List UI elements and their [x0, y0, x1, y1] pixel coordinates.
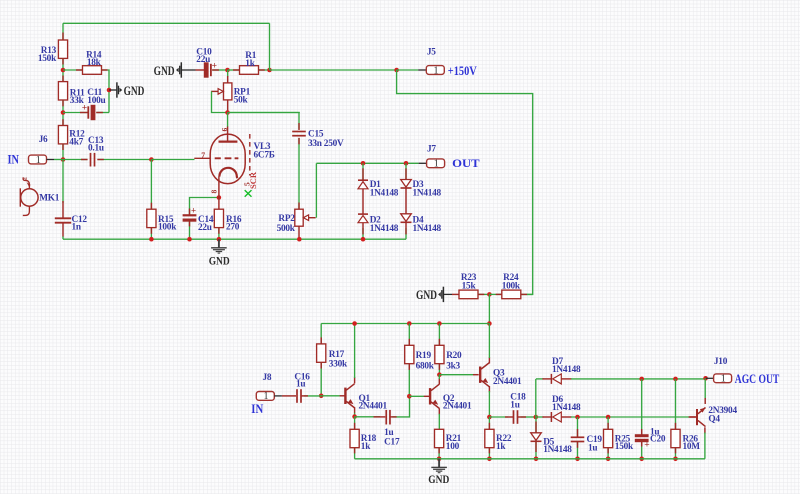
wire node IN to C13: [63, 159, 87, 161]
junction D3 top: [404, 161, 409, 166]
potentiometer RP1: [224, 83, 232, 100]
wire J5 pin: [397, 69, 419, 71]
resistor R23: [459, 290, 478, 299]
junction D1 top: [361, 161, 366, 166]
node cathode dot: [217, 195, 222, 200]
wire C15 to RP2: [298, 138, 300, 209]
resistor R17: [317, 344, 326, 362]
connector J6: [29, 155, 47, 164]
svg-text:1n: 1n: [72, 223, 82, 233]
potentiometer RP2: [295, 209, 303, 226]
node IN dot: [61, 157, 66, 162]
wire to GND flag: [109, 89, 116, 91]
capacitor C12: [55, 217, 71, 219]
node F dot: [487, 292, 492, 297]
resistor R1: [240, 66, 259, 75]
svg-text:1: 1: [721, 374, 726, 385]
capacitor C17: [385, 410, 387, 425]
capacitor C11 leads: [63, 112, 88, 114]
wire GND flag to C10: [181, 69, 195, 71]
svg-text:MK1: MK1: [39, 193, 60, 203]
svg-text:33n 250V: 33n 250V: [308, 139, 344, 149]
wire Q2 collector: [438, 378, 440, 384]
wire R20 to Q3 base node: [438, 364, 440, 375]
svg-text:50k: 50k: [234, 95, 249, 105]
diode D3: [401, 180, 412, 188]
svg-text:7: 7: [201, 150, 205, 159]
svg-text:4k7: 4k7: [69, 138, 83, 148]
svg-text:2N4401: 2N4401: [493, 377, 522, 387]
resistor R11: [58, 82, 67, 100]
wire grid node to tube pin 7: [151, 159, 194, 161]
wire R16 to rail: [218, 228, 220, 240]
svg-text:100: 100: [446, 442, 460, 452]
wire R22 to rail: [488, 448, 490, 459]
svg-text:1k: 1k: [361, 442, 371, 452]
tube VL3 dashed side line: [249, 134, 251, 176]
svg-text:1N4148: 1N4148: [552, 365, 581, 375]
no-connect X: [245, 190, 252, 197]
svg-text:J5: J5: [427, 47, 436, 57]
svg-text:J8: J8: [263, 373, 272, 383]
svg-text:+: +: [644, 440, 649, 450]
node D dot: [267, 68, 272, 73]
svg-text:18k: 18k: [87, 58, 102, 68]
capacitor C18: [513, 410, 515, 424]
wire C20 vertical: [641, 379, 643, 436]
node Q1 base dot: [319, 394, 324, 399]
node G dot: [534, 415, 539, 420]
svg-text:1: 1: [434, 159, 439, 170]
svg-text:1: 1: [36, 155, 41, 166]
wire R22 top: [488, 417, 490, 429]
wire R13 to R11 node: [62, 58, 64, 81]
svg-text:1u: 1u: [588, 443, 597, 453]
junction D5 rail: [534, 457, 539, 462]
svg-text:1N4148: 1N4148: [543, 445, 572, 455]
svg-text:1: 1: [434, 65, 439, 76]
node J10 dot: [703, 376, 708, 381]
wire C17 to Q2 base node: [392, 396, 409, 417]
wire C18 to node G: [521, 416, 536, 418]
junction D2 rail: [361, 237, 366, 242]
wire node F to R24: [489, 293, 502, 295]
capacitor C14: [183, 214, 197, 216]
svg-text:150k: 150k: [38, 54, 57, 64]
wire node C to RP1: [227, 70, 229, 77]
resistor R24: [502, 290, 521, 299]
svg-text:R20: R20: [446, 351, 462, 361]
wire C14 to rail: [189, 220, 191, 239]
svg-text:8: 8: [210, 190, 219, 194]
svg-text:10M: 10M: [683, 442, 701, 452]
svg-text:GND: GND: [209, 253, 230, 267]
wire +150V feed down: [397, 70, 533, 294]
wire Q4 collector to rail: [704, 427, 706, 433]
svg-text:1N4148: 1N4148: [413, 189, 442, 199]
wire OUT row: [316, 162, 418, 164]
wire D5 to rail: [535, 442, 537, 459]
junction C14 rail: [187, 237, 192, 242]
wire RP1 bottom to node E: [227, 100, 229, 113]
wire R15 to rail: [150, 228, 152, 240]
junction C20 rail: [639, 457, 644, 462]
svg-text:330k: 330k: [329, 359, 348, 369]
wire emitter to C18: [489, 416, 508, 418]
svg-text:100k: 100k: [158, 223, 177, 233]
wire R13 top lead: [62, 23, 64, 40]
junction Q1 collector rail: [352, 321, 357, 326]
diode D7: [550, 374, 552, 384]
ground earth below R16: [218, 239, 220, 247]
junction R15 rail: [149, 237, 154, 242]
svg-text:GND: GND: [124, 83, 145, 98]
svg-text:1N4148: 1N4148: [413, 224, 442, 234]
wire C20 to rail: [641, 440, 643, 459]
wire Q3 emitter: [488, 386, 490, 392]
svg-text:1u: 1u: [510, 400, 519, 410]
node Q3 emitter dot: [487, 415, 492, 420]
svg-text:680k: 680k: [416, 361, 435, 371]
svg-text:0.1u: 0.1u: [88, 144, 104, 154]
transistor Q1: [344, 388, 346, 404]
wire R1 to node D: [259, 69, 270, 71]
wire node D to J5: [270, 69, 397, 71]
wire cathode to R16: [218, 177, 220, 210]
wire C10 to node C: [212, 69, 227, 71]
svg-text:GND: GND: [416, 287, 437, 302]
svg-text:C17: C17: [384, 437, 400, 447]
svg-text:1k: 1k: [245, 59, 255, 69]
svg-text:6С7Б: 6С7Б: [254, 150, 275, 160]
wire R18 to rail: [354, 448, 356, 459]
wire R26 vertical: [675, 379, 677, 429]
wire R19 top: [408, 324, 410, 346]
node C dot: [225, 68, 230, 73]
wire node C to R1: [228, 69, 240, 71]
svg-text:GND: GND: [428, 472, 449, 486]
svg-text:6: 6: [220, 128, 229, 132]
svg-text:2N4401: 2N4401: [443, 402, 472, 412]
transistor Q2: [429, 388, 431, 404]
junction R26 rail: [673, 457, 678, 462]
wire J7 pin: [419, 162, 427, 164]
wire D3 lead: [405, 163, 407, 179]
svg-text:Q4: Q4: [708, 414, 720, 424]
svg-text:AGC OUT: AGC OUT: [735, 372, 780, 386]
node Q1 emitter dot: [352, 414, 357, 419]
svg-text:270: 270: [226, 223, 240, 233]
wire D4 to rail: [405, 228, 407, 239]
svg-text:22u: 22u: [198, 223, 212, 233]
wire GND to R23: [443, 293, 452, 295]
resistor R16: [214, 209, 223, 227]
wire C12 to bottom rail: [62, 236, 64, 239]
resistor R21: [435, 429, 444, 447]
connector J8: [256, 392, 274, 401]
capacitor C15: [292, 131, 306, 133]
wire R23 to node F: [478, 293, 489, 295]
wire Q2 emitter: [438, 408, 440, 414]
svg-text:2: 2: [23, 177, 29, 180]
svg-text:1k: 1k: [496, 442, 506, 452]
tube VL3 anode plate: [219, 140, 238, 142]
connector J10: [714, 374, 732, 383]
wire emitter to C17: [355, 416, 380, 418]
transistor Q3: [479, 367, 481, 383]
wire R12 to input node: [62, 144, 64, 160]
wire D7 cathode lead: [536, 378, 544, 380]
junction C19 rail: [575, 457, 580, 462]
diode D5: [531, 433, 542, 441]
capacitor C20: [635, 434, 649, 437]
wire Q2 base: [409, 395, 424, 397]
connector J7: [427, 159, 445, 168]
svg-text:J10: J10: [714, 357, 728, 367]
wire R24 right pin: [521, 293, 527, 295]
svg-text:IN: IN: [8, 153, 20, 167]
svg-text:SCR: SCR: [248, 171, 258, 189]
junction R16 rail: [217, 237, 222, 242]
wire Q3 base wire: [439, 374, 473, 376]
wire Q3 collector: [488, 357, 490, 363]
junction R25 rail: [606, 457, 611, 462]
junction R20 rail: [437, 321, 442, 326]
resistor R12: [58, 126, 67, 144]
svg-text:500k: 500k: [277, 224, 296, 234]
wire D1 to D2: [362, 189, 364, 215]
svg-text:1N4148: 1N4148: [552, 403, 581, 413]
microphone MK1: [21, 189, 38, 206]
transistor Q4: [696, 409, 698, 425]
svg-text:3k3: 3k3: [446, 361, 460, 371]
wire node D up to rail: [269, 23, 271, 70]
resistor R22: [485, 429, 494, 447]
svg-text:+150V: +150V: [448, 64, 477, 78]
wire D6 row: [561, 416, 571, 418]
svg-text:100k: 100k: [502, 281, 521, 291]
bottom rail top section: [63, 238, 406, 240]
wire C19 top lead: [577, 417, 579, 437]
wire Q1 emitter: [354, 407, 356, 413]
resistor R14: [83, 66, 102, 75]
wire D6 cathode lead: [536, 416, 544, 418]
junction C20 top: [639, 377, 644, 382]
diode D4: [401, 214, 412, 222]
node A dot: [61, 68, 66, 73]
junction R22 rail: [487, 457, 492, 462]
wire top rail from R13 to R1 node: [63, 22, 270, 24]
wire D1 lead: [362, 163, 364, 180]
wire RP2 wiper to OUT node: [315, 163, 317, 217]
wire R19 to Q2 base node: [408, 364, 410, 397]
capacitor C11: [87, 106, 89, 118]
resistor R18: [350, 429, 359, 447]
resistor R20: [435, 345, 444, 363]
svg-text:C20: C20: [650, 434, 666, 444]
junction R25 top: [606, 415, 611, 420]
resistor R13: [58, 40, 67, 58]
wire J6 pin: [47, 159, 55, 161]
node Q2 base dot: [407, 394, 412, 399]
wire D7 row: [561, 378, 571, 380]
svg-text:1: 1: [264, 391, 269, 402]
junction R14-GND: [107, 88, 112, 93]
bottom rail bottom section: [355, 458, 705, 460]
tube VL3 grid dashes: [215, 157, 221, 159]
wire D2 to rail: [362, 228, 364, 239]
svg-text:+: +: [191, 206, 196, 216]
wire R26 to rail: [675, 448, 677, 459]
wire J8 pin: [274, 395, 282, 397]
junction R26 top: [673, 377, 678, 382]
diode D2: [358, 213, 368, 215]
junction R21 rail: [437, 457, 442, 462]
capacitor C13: [90, 153, 92, 167]
svg-text:+: +: [82, 104, 87, 114]
wire D5 anode lead: [535, 417, 537, 433]
svg-text:RP2: RP2: [278, 214, 295, 224]
wire Q1 collector: [354, 377, 356, 383]
resistor R15: [147, 209, 156, 227]
wire R21 to rail: [438, 448, 440, 459]
diode D6: [550, 412, 552, 422]
capacitor C16: [296, 389, 298, 403]
wire RP1 wiper down: [212, 91, 300, 112]
wire C19 to rail: [577, 442, 579, 459]
tube VL3 envelope: [210, 134, 245, 184]
svg-text:1N4148: 1N4148: [370, 189, 399, 199]
junction VCC right: [487, 321, 492, 326]
svg-text:100u: 100u: [87, 96, 105, 106]
wire node G up to D7 row: [535, 379, 537, 417]
junction C19 top: [575, 415, 580, 420]
ground earth below R21: [438, 459, 440, 467]
node grid dot: [149, 157, 154, 162]
wire Q4 base from D6 row: [690, 416, 696, 418]
connector J5: [426, 66, 444, 75]
wire grid node to R15: [150, 160, 152, 210]
wire R18 top: [354, 417, 356, 430]
wire cathode net: [190, 198, 219, 215]
wire R17 to Q1 base node: [320, 362, 322, 396]
VCC rail bottom section: [321, 323, 489, 325]
wire R14 to GND branch: [102, 70, 110, 113]
ground GND flag top-left: [116, 82, 118, 97]
svg-text:GND: GND: [154, 63, 175, 78]
node B dot: [61, 110, 66, 115]
wire RP2 to rail: [298, 226, 300, 239]
wire D3 to D4: [405, 188, 407, 214]
resistor R26: [671, 429, 680, 447]
wire J10 pin: [706, 377, 714, 379]
diode D1: [358, 179, 368, 181]
resistor R25: [604, 429, 613, 447]
svg-text:150k: 150k: [615, 442, 634, 452]
wire R11 to R12: [62, 100, 64, 126]
wire C13 to grid node: [98, 159, 152, 161]
svg-text:1u: 1u: [296, 380, 305, 390]
svg-text:1N4148: 1N4148: [370, 224, 399, 234]
capacitor C10: [204, 62, 209, 77]
wire R17 top lead: [320, 324, 322, 344]
wire R25 top lead: [607, 417, 609, 429]
wire C16 to Q1 base node: [304, 395, 321, 397]
wire Q1 base: [321, 395, 340, 397]
svg-text:IN: IN: [251, 402, 263, 416]
svg-text:15k: 15k: [462, 281, 477, 291]
svg-text:OUT: OUT: [452, 156, 480, 170]
wire input node down to C12: [62, 160, 64, 204]
junction RP2 rail: [297, 237, 302, 242]
wire R20 top: [438, 324, 440, 346]
wire node E to C15: [228, 113, 300, 129]
svg-text:J6: J6: [39, 135, 48, 145]
resistor R19: [405, 345, 414, 363]
svg-text:22u: 22u: [196, 55, 210, 65]
tube VL3 cathode arc: [219, 168, 237, 178]
wire anode lead: [227, 113, 229, 128]
svg-text:2N4401: 2N4401: [359, 402, 388, 412]
svg-text:J7: J7: [427, 144, 436, 154]
node J5 dot: [394, 68, 399, 73]
wire node A to R14: [63, 69, 83, 71]
wire Q4 emitter from J10 node: [704, 378, 706, 399]
capacitor C19: [571, 436, 585, 438]
wire R25 to rail: [607, 448, 609, 459]
node E dot: [225, 110, 230, 115]
wire node F to VCC rail: [488, 294, 490, 323]
svg-text:R19: R19: [416, 351, 432, 361]
node Q3 base dot: [437, 372, 442, 377]
junction R19 rail: [407, 321, 412, 326]
